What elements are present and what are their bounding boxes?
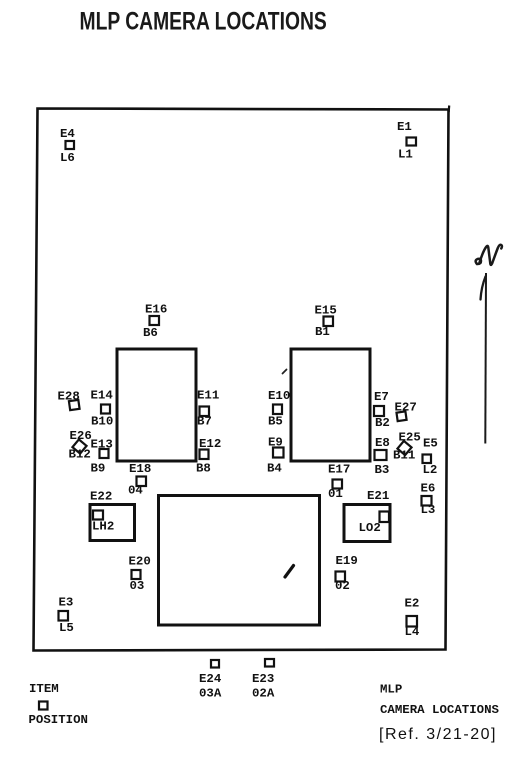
svg-text:E1: E1 xyxy=(397,120,412,134)
svg-text:03: 03 xyxy=(130,579,145,593)
svg-text:E8: E8 xyxy=(375,436,390,450)
svg-text:L4: L4 xyxy=(405,625,420,639)
svg-text:B9: B9 xyxy=(91,462,106,476)
svg-text:E24: E24 xyxy=(199,672,222,686)
svg-text:ITEM: ITEM xyxy=(29,682,59,696)
svg-text:L5: L5 xyxy=(59,621,74,635)
svg-text:02A: 02A xyxy=(252,687,275,701)
svg-text:B11: B11 xyxy=(393,449,415,463)
corner overshoot top-right xyxy=(448,106,451,113)
LO2 facility box xyxy=(344,505,390,542)
svg-text:04: 04 xyxy=(128,484,143,498)
svg-text:B5: B5 xyxy=(268,415,283,429)
svg-text:B6: B6 xyxy=(143,326,158,340)
svg-text:MLP CAMERA LOCATIONS: MLP CAMERA LOCATIONS xyxy=(80,7,327,35)
svg-text:02: 02 xyxy=(335,579,350,593)
svg-text:POSITION: POSITION xyxy=(29,713,89,727)
scan tick artifact xyxy=(283,370,287,374)
svg-text:L6: L6 xyxy=(60,151,75,165)
svg-text:E21: E21 xyxy=(367,489,389,503)
svg-text:E6: E6 xyxy=(421,482,436,496)
svg-text:MLP: MLP xyxy=(380,683,402,697)
svg-text:E23: E23 xyxy=(252,672,274,686)
svg-text:LH2: LH2 xyxy=(92,520,114,534)
svg-text:E5: E5 xyxy=(423,437,438,451)
svg-text:B2: B2 xyxy=(375,416,390,430)
camera E24 xyxy=(211,660,219,668)
svg-text:E16: E16 xyxy=(145,303,167,317)
svg-text:E22: E22 xyxy=(90,490,112,504)
LH2 facility box xyxy=(90,505,135,541)
svg-text:B4: B4 xyxy=(267,462,282,476)
svg-text:B7: B7 xyxy=(197,415,212,429)
svg-text:E7: E7 xyxy=(374,390,389,404)
svg-text:L2: L2 xyxy=(423,463,438,477)
svg-text:E18: E18 xyxy=(129,462,151,476)
svg-text:E4: E4 xyxy=(60,127,75,141)
svg-text:E20: E20 xyxy=(129,555,151,569)
central large rectangle xyxy=(159,496,320,626)
left exhaust opening rectangle xyxy=(117,349,196,461)
svg-text:B3: B3 xyxy=(375,463,390,477)
svg-text:L3: L3 xyxy=(421,503,436,517)
svg-text:03A: 03A xyxy=(199,687,222,701)
svg-text:L1: L1 xyxy=(398,148,413,162)
svg-text:E19: E19 xyxy=(336,554,358,568)
svg-text:[Ref. 3/21-20]: [Ref. 3/21-20] xyxy=(379,726,497,743)
camera E23 xyxy=(265,659,274,667)
right exhaust opening rectangle xyxy=(291,349,370,461)
svg-text:LO2: LO2 xyxy=(359,521,381,535)
svg-text:B12: B12 xyxy=(69,448,91,462)
svg-text:E15: E15 xyxy=(315,304,337,318)
svg-text:E10: E10 xyxy=(268,389,290,403)
svg-text:B8: B8 xyxy=(196,462,211,476)
svg-text:B1: B1 xyxy=(315,325,330,339)
svg-text:E17: E17 xyxy=(328,463,350,477)
svg-text:E2: E2 xyxy=(405,597,420,611)
slash mark inside central rectangle xyxy=(285,566,294,578)
svg-text:CAMERA LOCATIONS: CAMERA LOCATIONS xyxy=(380,703,500,717)
svg-text:E3: E3 xyxy=(59,596,74,610)
svg-text:B10: B10 xyxy=(91,415,113,429)
north arrow script N xyxy=(476,245,502,265)
svg-text:E11: E11 xyxy=(197,389,219,403)
svg-text:01: 01 xyxy=(328,487,343,501)
MLP deck outline (outer box) xyxy=(34,109,449,651)
north arrow shaft xyxy=(484,273,487,444)
svg-text:E14: E14 xyxy=(91,389,114,403)
north arrow barb xyxy=(481,277,486,300)
